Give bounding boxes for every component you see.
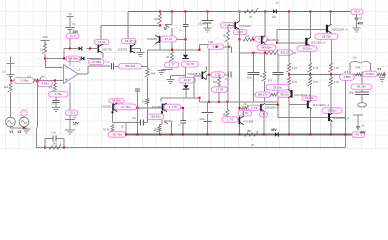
battery V4 15V [65,116,75,134]
svg-text:0.23: 0.23 [292,66,298,70]
capacitor 100u bottom [207,102,209,113]
2SD498_A collector emitter [264,12,266,53]
svg-text:K3C983: K3C983 [101,105,111,109]
wire top positive rail [128,11,355,13]
svg-text:0.23: 0.23 [292,80,298,84]
svg-text:4.886: 4.886 [343,75,351,79]
svg-text:36V: 36V [271,128,277,132]
probe oval 2SA1837 [248,105,260,110]
transistor Q 2SD786 left [98,45,100,53]
ground jog zener [171,76,186,79]
svg-text:29.32m: 29.32m [328,108,337,112]
svg-text:3c2: 3c2 [353,56,358,59]
svg-text:470: 470 [49,86,54,90]
transistor MJL3281_A [305,38,307,46]
svg-text:V4: V4 [73,116,77,120]
svg-text:K3A281: K3A281 [147,37,157,41]
capacitor feedback 7.5n loop [45,139,64,148]
driver base node x277 [276,29,278,43]
transistor K3C1815 [221,23,235,29]
probe oval 949m [257,45,276,51]
capacitor small x137.5 [135,88,140,90]
probe oval rail left [108,132,126,138]
resistor mid output [356,72,363,76]
svg-text:100: 100 [154,17,159,21]
resistor chain x172 with oval and ground [169,52,173,62]
probe oval rail right end [352,132,365,138]
ground sources [23,128,31,130]
svg-text:29.35m: 29.35m [305,96,314,100]
svg-text:1.79: 1.79 [242,111,248,115]
svg-text:-90.46u: -90.46u [150,115,161,119]
svg-text:3u2: 3u2 [2,70,7,74]
transistor Q 2SD786 right [130,45,132,53]
svg-text:-15.0: -15.0 [68,111,76,115]
svg-text:4.89u: 4.89u [54,92,62,96]
wire y108 lower VAS [238,107,240,109]
AC source V1 [6,117,16,127]
svg-text:K3C1815: K3C1815 [240,24,252,28]
resistor 20 lower [242,105,248,110]
capacitor 10u y122 [141,120,144,126]
node dot x278 y104.7 [277,104,279,106]
probe oval 6k8 [212,87,228,93]
capacitor 100u output [361,75,363,92]
transistor K3A281 [159,36,161,43]
probe oval y66 [119,64,142,70]
svg-text:9k1: 9k1 [53,142,58,146]
svg-text:1.79: 1.79 [227,117,233,121]
svg-text:1000u: 1000u [198,22,206,26]
transistor 2SA1837 [260,104,262,111]
node dot d1 [89,47,91,49]
svg-text:29.32m: 29.32m [303,46,312,50]
probe oval K3C983b [164,104,181,110]
svg-text:-90.46u: -90.46u [112,132,123,136]
svg-text:0.23: 0.23 [334,66,340,70]
svg-text:0.23: 0.23 [313,80,319,84]
svg-text:0.23: 0.23 [334,80,340,84]
wire base bus y108 [137,107,184,109]
ground R1 [384,75,386,78]
resistor 56 bottom [227,102,229,110]
node dot input [44,57,46,59]
zener 2 [183,85,188,88]
resistor 2k x264 [264,53,266,72]
battery V3 15V [65,14,75,48]
transistor MJL1302A_B second [307,101,309,109]
resistor 60.6k [110,125,114,132]
node dot corner y58 [63,57,65,59]
svg-text:4k1: 4k1 [41,75,46,79]
wire bias y58 [45,58,78,60]
wire y49.5 [148,45,232,75]
svg-text:17.78: 17.78 [216,87,224,91]
wire x148 column [147,50,149,69]
node dot x209 y74.5 [208,74,210,76]
svg-text:15V: 15V [73,122,79,126]
wire x289 from rail [288,12,290,64]
probe oval 2SA1837 emitter [260,112,268,118]
svg-text:2SA1837_A: 2SA1837_A [265,105,280,109]
probe oval below K3C983b [147,114,164,120]
svg-text:29.00u: 29.00u [322,34,331,38]
emitter resistors top 0.23 [286,63,290,72]
svg-text:4.88: 4.88 [356,67,361,70]
probe oval below y58 [89,60,105,65]
transistor K3C983 lower [239,117,241,125]
ground under 1n [52,107,60,109]
rail resistor 20 2W [232,11,244,13]
transistor MJL1302A_A first [288,86,290,89]
svg-text:15.0: 15.0 [70,34,76,38]
transistor 2SD498_B [202,72,204,80]
wire plus input y80 [11,80,64,82]
svg-text:MJE15034_A: MJE15034_A [332,28,348,32]
wire sources bottom [11,127,27,129]
K3C983a emitter down [112,111,114,123]
svg-text:R1: R1 [378,67,382,71]
resistor R input 1k [42,44,46,54]
wire output rail [288,74,362,76]
wire bias y48 [64,49,97,59]
node dot y97 [198,97,200,99]
transistor MJL1302A third [328,113,330,121]
wire bottom negative rail [109,134,353,136]
left source chain battery [7,57,15,81]
svg-text:10u: 10u [132,117,137,120]
svg-text:V1: V1 [10,130,14,134]
resistor 180 [157,126,161,132]
svg-text:44.97: 44.97 [184,78,192,82]
svg-text:3k3: 3k3 [4,85,9,89]
node dots y46.5 [215,46,217,48]
transistor 2SD498_A [261,36,263,44]
svg-text:2SD786: 2SD786 [102,47,112,51]
svg-text:-0.5: -0.5 [344,70,349,74]
svg-text:59.98: 59.98 [125,39,133,43]
probe oval Qb collector [122,39,137,44]
svg-text:6k8: 6k8 [213,80,218,84]
node dot rc right [63,146,65,148]
svg-text:1ku: 1ku [105,60,110,64]
svg-text:794.96m: 794.96m [68,57,78,61]
wire feedback tap from output rail [345,75,347,118]
svg-text:-1.778: -1.778 [168,105,177,109]
svg-text:2W: 2W [272,16,276,19]
svg-text:180: 180 [153,128,158,131]
probe oval K3A281 [161,36,177,42]
node dot x253 y39.5 [252,38,254,40]
svg-text:0.23: 0.23 [313,66,319,70]
wire to x185.5 [177,38,186,40]
svg-text:3n3: 3n3 [268,79,273,83]
svg-text:U1: U1 [77,68,81,72]
probe oval lower1 above [266,85,289,90]
wire y101.5 bus [200,98,279,102]
op-amp U1 [64,65,79,84]
wire x228 column down to bus [227,47,229,102]
wire y97.5 [161,97,200,99]
probe oval lower3 [322,108,342,114]
resistor R 100 [159,12,161,14]
svg-text:48.06m: 48.06m [112,99,121,103]
node dots y49.5 [171,49,173,51]
svg-text:61.51: 61.51 [98,40,106,44]
probe oval above K3C983a [109,99,124,104]
node dot rc left [44,146,46,148]
svg-text:MJL3281_A: MJL3281_A [311,41,326,45]
capacitor 1000u x207 with ground [207,12,209,21]
svg-text:60.6k: 60.6k [103,128,110,132]
emitter resistors bottom 0.23 [288,75,290,78]
capacitor 1u right [229,72,232,78]
transistor MJE15034_A [326,25,328,33]
svg-text:29.35m: 29.35m [273,85,282,89]
node dots bottom rail [125,133,127,135]
resistor source 3k [8,83,12,93]
node dots y80 [10,79,12,81]
svg-text:40V: 40V [360,130,366,134]
node dot x185.5 y39 [184,38,186,40]
wire x126 to rail [125,123,127,135]
source V6 40V arrow [353,115,363,131]
node dot x137.5 y108 [136,107,138,109]
wire opamp minus input [46,59,63,68]
svg-text:1.79: 1.79 [251,106,257,110]
node dot v3 [69,47,71,49]
node dots top rail [159,10,161,12]
rail diode 36V [275,132,278,136]
R470 network [54,81,56,84]
diode D2 [82,56,85,60]
svg-text:44.78: 44.78 [186,62,194,66]
feedback wire down x37 [37,81,39,128]
svg-text:981.07m: 981.07m [258,94,268,97]
diode D1 [79,46,82,50]
K3C983b emitter down [160,111,163,126]
wire y29 to MJE15034 [277,28,326,30]
resistor y52.5 [266,49,278,54]
svg-text:V2: V2 [18,130,22,134]
background grid [0,0,388,150]
wire x101 branch [100,26,102,40]
svg-text:100u: 100u [199,117,205,121]
svg-text:1.79: 1.79 [215,72,221,76]
base stub lower2 [289,104,307,106]
svg-text:100n: 100n [246,76,252,80]
resistor 56 top [228,25,235,30]
svg-text:788.96k: 788.96k [125,64,136,68]
ground Qb [137,52,145,54]
current source hook top x172 [165,12,172,50]
svg-text:4.98: 4.98 [208,41,213,44]
svg-text:949.02m: 949.02m [261,45,271,49]
probe oval y80 left [14,78,34,84]
resistor R1 load [378,72,385,76]
probe oval 1.07 [255,37,268,43]
wire y122.5 [113,122,140,124]
svg-text:-1.98u: -1.98u [19,78,29,82]
svg-text:100u: 100u [348,92,354,95]
svg-text:40.0: 40.0 [354,10,360,14]
probe oval MJL3281 [297,46,317,52]
svg-text:4k9: 4k9 [151,72,156,76]
svg-text:0.07: 0.07 [237,30,243,34]
probe oval y80 right [38,81,53,87]
capacitor 1u y66 [111,63,113,70]
wire x231 jog [231,47,233,53]
wire lower base bus y117 [278,118,346,148]
wire x161 vertical from y97.8 [160,98,162,102]
svg-text:V3: V3 [72,22,76,26]
capacitor 1n [53,100,60,102]
probe oval MJE15034 [315,34,338,40]
probe oval K3C983 bottom left [222,117,238,123]
2SA1837 emitter down [263,112,265,135]
svg-text:84.36u: 84.36u [357,85,366,89]
svg-text:2SD786: 2SD786 [118,47,128,51]
wire opamp vplus pin to bias [69,59,71,62]
svg-text:4.89u: 4.89u [41,82,49,86]
wire y52.5 [240,52,297,54]
transistor K3C983 b [162,104,164,111]
speaker load symbol [350,63,371,75]
wire x185.5 down [185,40,187,50]
node dot output [383,73,385,75]
probe oval y46.5 [208,44,224,50]
resistor feedback 1k1 [33,77,41,82]
K3C1815 collector emitter wires [239,12,241,40]
svg-text:K3C983: K3C983 [152,105,162,109]
capacitor 1u bottom [182,108,184,120]
node dot x239 y39.5 [238,38,240,40]
svg-text:-73.08m: -73.08m [91,60,101,64]
wire opamp vminus down [69,86,71,111]
resistor feedback 9k1 [45,147,49,149]
current source hook bottom [164,121,172,135]
base chain lower bank y94.5 [254,94,271,96]
probe oval zener2 [179,78,196,84]
node dots output rail [288,73,290,75]
wire y42.5 to MJL3281 [277,42,306,44]
zener chain x185.5 [185,50,187,55]
wire bottom feedback line [37,128,346,148]
capacitor 100n x253 [253,53,255,72]
probe oval base chain left [255,92,271,97]
probe oval Qa collector [95,40,110,45]
wire x128 branch [127,12,129,39]
probe oval K3C983a [115,104,137,110]
probe oval above transistor [238,111,252,117]
node dots y101.5 [208,101,210,103]
svg-text:-27.78m: -27.78m [120,105,130,109]
svg-text:K3C983: K3C983 [244,119,254,123]
transistor K3C983 a [112,104,114,111]
wire y25 tail bias [101,25,160,27]
probe oval lower2 [302,96,317,101]
svg-text:19.85m: 19.85m [366,72,375,76]
probe oval y74.5 [211,72,225,78]
probe oval 470 [49,92,69,98]
svg-text:MJL1302A_A: MJL1302A_A [313,103,329,107]
source V5 40V arrow [356,15,358,28]
probe oval R1 [363,71,378,77]
wire opamp output [78,66,111,74]
wire x209 down [208,75,210,102]
resistor 6k8 [218,75,220,78]
svg-text:MJL1302A_A: MJL1302A_A [333,116,349,120]
capacitor 1u x185.5 [185,12,187,25]
probe oval on y58 [66,56,80,62]
probe oval opamp vminus [66,110,79,116]
svg-text:40V: 40V [358,22,364,26]
resistor 10 [243,36,254,41]
probe oval V3 net [66,34,79,39]
input terminal J1 [41,37,50,45]
AC source V2 [19,117,29,127]
probe oval base chain right [278,92,292,97]
node dots y52.5 [252,52,254,54]
probe circle V2 [23,111,25,118]
wire x239 down to y101.5 and y108 [239,40,241,118]
wire x137.5 to rail [137,108,139,135]
probe oval below K3C1815 [234,30,248,35]
probe oval rail top end [351,9,363,15]
svg-text:27.08: 27.08 [165,37,173,41]
capacitor 3n3 x278 [277,53,279,72]
rail resistor 20 bottom [244,131,258,136]
node dot x183 y108 [182,107,184,109]
probe oval 991 [278,50,293,56]
svg-text:1.77: 1.77 [169,63,175,67]
probe oval on output rail [340,74,355,80]
svg-text:-991.0m: -991.0m [279,94,289,97]
wire x194 [193,76,195,98]
rail diode V7 [273,9,276,13]
node dot R100 bottom [159,24,161,26]
wire Qb emitter to ground [132,40,141,54]
svg-text:7.5n: 7.5n [51,131,57,135]
2SA1837 collector wire to x278 [265,104,278,106]
